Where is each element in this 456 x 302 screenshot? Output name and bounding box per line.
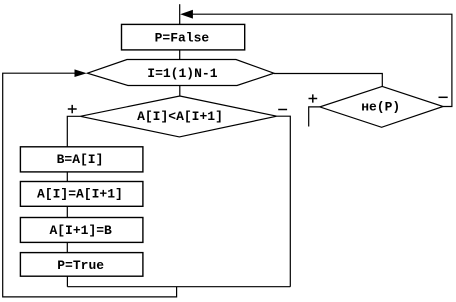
process box A[I+1]=B	[20, 218, 142, 243]
svg-text:не(P): не(P)	[361, 100, 400, 115]
loop hexagon I=1(1)N-1	[87, 60, 274, 86]
decision diamond A[I]<A[I+1]	[80, 96, 276, 137]
wire	[66, 206, 68, 217]
decision diamond ne(P)	[320, 86, 443, 127]
wire: true branch to B=A[I]	[67, 116, 80, 147]
svg-text:A[I+1]=B: A[I+1]=B	[49, 223, 112, 238]
wire	[66, 172, 68, 182]
svg-text:A[I]<A[I+1]: A[I]<A[I+1]	[137, 109, 223, 124]
label plus (comparison true)	[68, 105, 77, 113]
wire: ne(P) true branch (dangling)	[309, 107, 320, 127]
wire: loop-back from ne(P) minus branch to entry	[193, 14, 452, 106]
wire	[66, 242, 68, 252]
wire: false branch down right side	[277, 116, 291, 287]
wire: hexagon to comparison diamond	[179, 86, 181, 97]
svg-text:B=A[I]: B=A[I]	[57, 152, 104, 167]
process box A[I]=A[I+1]	[20, 182, 142, 207]
svg-text:I=1(1)N-1: I=1(1)N-1	[147, 66, 217, 81]
svg-text:A[I]=A[I+1]: A[I]=A[I+1]	[37, 187, 123, 202]
svg-text:P=False: P=False	[155, 30, 210, 45]
arrowhead into entry line	[180, 10, 193, 19]
label minus (comparison false)	[278, 109, 287, 111]
svg-text:P=True: P=True	[57, 258, 104, 273]
process box B=A[I]	[20, 147, 142, 172]
wire: P=True exit to merge line	[66, 276, 68, 287]
label minus (ne(P) false)	[439, 96, 448, 98]
process box P=False	[122, 24, 245, 50]
wire: left loop return into hexagon	[3, 73, 177, 297]
wire: merge line	[67, 286, 290, 288]
label plus (ne(P) true)	[309, 94, 318, 102]
wire: hexagon exit to ne(P)	[274, 74, 382, 87]
wire: entry line into P=False	[179, 4, 181, 24]
process box P=True	[20, 253, 142, 277]
arrowhead into hexagon	[75, 69, 87, 77]
wire: P=False to loop hexagon	[179, 50, 181, 60]
